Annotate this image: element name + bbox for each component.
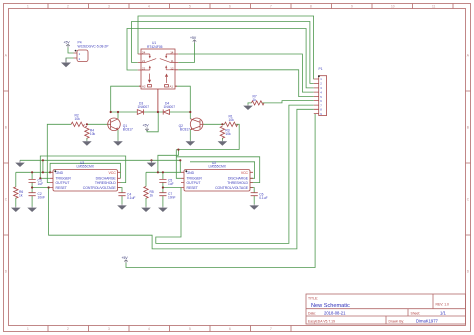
ground Q1 emitter: [117, 140, 119, 143]
relay U1 RT424F05: [138, 49, 178, 112]
svg-text:8: 8: [310, 4, 312, 8]
junction gnd bus U2 drop: [179, 159, 181, 161]
ground Q2 emitter: [189, 140, 191, 143]
coil arrow up (right): [166, 77, 168, 83]
wire relay A1 to diode row: [175, 86, 190, 112]
svg-text:1: 1: [27, 4, 29, 8]
IC U2 LM555CMX: [181, 170, 253, 191]
svg-text:RESET: RESET: [56, 186, 68, 190]
svg-text:B: B: [5, 125, 7, 129]
junction gnd bus U3 drop: [42, 159, 44, 161]
svg-text:10k: 10k: [225, 132, 231, 136]
ground bus mid: [151, 160, 153, 162]
svg-text:0.1uF: 0.1uF: [259, 196, 267, 200]
wire R2 left to U3 output: [47, 124, 71, 182]
wire R6 bottom to gnd: [15, 198, 17, 207]
junction U3 reset row: [48, 186, 50, 188]
wire relay24 to P1 pin1: [138, 16, 314, 79]
+5V at diode row (inverted): [145, 127, 149, 130]
svg-text:11: 11: [432, 4, 436, 8]
svg-text:10nF: 10nF: [168, 195, 176, 199]
svg-text:THRESHOLD: THRESHOLD: [95, 181, 116, 185]
svg-text:2018-08-21: 2018-08-21: [324, 311, 346, 316]
svg-text:1k: 1k: [150, 193, 154, 197]
wire relay21 to P1 pin2: [132, 22, 314, 84]
wire U3 gnd drop: [42, 160, 44, 172]
side pins A2/A1: [139, 85, 177, 87]
coil arrow down (left): [149, 74, 151, 80]
junction net y149.6 jog: [177, 149, 179, 151]
svg-text:4: 4: [148, 327, 150, 331]
svg-text:10k: 10k: [75, 117, 81, 121]
svg-text:RT424F05: RT424F05: [147, 45, 163, 49]
left lower fixed contact from 22: [141, 68, 150, 70]
wire U2 mid row: [146, 171, 181, 173]
junction C3 top: [31, 171, 33, 173]
ground symbols (grey): [11, 58, 259, 212]
resistor R5 1k (vertical): [144, 187, 148, 199]
svg-text:REV: 1.0: REV: 1.0: [436, 303, 450, 307]
left ticks: [4, 91, 9, 235]
wire P4 pin1 to +5V: [68, 48, 74, 54]
wire gnd bus: [20, 159, 180, 161]
wire +5V S4 to P1 pin9: [126, 114, 315, 268]
wire U2 trigger riser: [176, 150, 181, 179]
connector P4 WJ2EDGVC-5.08-2P: [74, 50, 89, 62]
junction U3 disch tie: [49, 171, 51, 173]
svg-text:1N4007: 1N4007: [138, 105, 150, 109]
bottom center coil stub: [157, 89, 159, 112]
wire relay14 to P1 pin4: [178, 54, 314, 92]
junction U3 gnd row: [42, 171, 44, 173]
junction gnd bus mid ground: [150, 159, 152, 161]
wire R4 gnd: [86, 138, 88, 141]
title block: [306, 294, 466, 324]
capacitor C3: [29, 179, 36, 182]
svg-text:+5V: +5V: [190, 36, 197, 40]
svg-text:EasyEDA V5.7.19: EasyEDA V5.7.19: [308, 319, 335, 323]
wire net y149.6 run: [176, 149, 239, 151]
svg-text:+5V: +5V: [64, 40, 71, 44]
svg-text:LM555CMX: LM555CMX: [209, 164, 227, 168]
svg-text:+5V: +5V: [143, 124, 150, 128]
left blade from 21: [141, 59, 156, 63]
wire U2 thres tie: [176, 157, 259, 183]
svg-text:BC817: BC817: [180, 128, 190, 132]
junction R2/R4/Q1 base: [86, 123, 88, 125]
resistor R1 10k (horizontal): [224, 122, 237, 126]
wire diode row: [111, 111, 191, 113]
svg-text:GND: GND: [187, 171, 195, 175]
svg-text:Drawn By:: Drawn By:: [389, 319, 405, 323]
svg-text:1: 1: [27, 327, 29, 331]
wire relay A2 to diode row: [111, 86, 141, 112]
svg-text:GND: GND: [56, 171, 64, 175]
bottom ticks: [48, 326, 291, 332]
wire jog down to U2 row: [158, 150, 179, 173]
svg-text:VCC: VCC: [241, 171, 249, 175]
junction C5/C7 row: [162, 186, 164, 188]
+5V at relay pin11: [193, 40, 197, 43]
junction diode row left: [110, 111, 112, 113]
svg-text:1uF: 1uF: [168, 182, 174, 186]
left contact: pin24 inner lead and fixed contact arrow: [141, 54, 150, 56]
junction R1/R3/Q2 base: [221, 123, 223, 125]
svg-text:14: 14: [170, 50, 174, 54]
wire R1 right to net: [236, 124, 239, 149]
svg-text:6: 6: [229, 4, 231, 8]
svg-text:BC817: BC817: [123, 128, 133, 132]
capacitor C2: [29, 193, 36, 196]
wire +5V S3 to diode row center: [147, 112, 158, 132]
wire U2 gnd drop: [179, 160, 182, 172]
resistor R2 10k (horizontal): [71, 122, 84, 126]
wire U3 reset row: [32, 187, 50, 189]
junction Q1 collector: [117, 111, 119, 113]
svg-text:10k: 10k: [229, 118, 235, 122]
right ticks: [466, 91, 471, 235]
wire Q1 emitter to gnd: [117, 130, 119, 141]
svg-text:CONTROL/VOLTAGE: CONTROL/VOLTAGE: [215, 186, 249, 190]
svg-text:21: 21: [142, 59, 146, 63]
+5V bottom: [124, 260, 128, 263]
svg-text:VCC: VCC: [109, 171, 117, 175]
svg-text:OUTPUT: OUTPUT: [187, 181, 202, 185]
resistor R7 1k (horizontal): [252, 101, 265, 105]
+5V at P4: [66, 44, 70, 47]
ground C6: [253, 204, 255, 205]
svg-text:New Schematic: New Schematic: [311, 303, 350, 309]
resistor R4 10k (vertical): [85, 126, 89, 138]
capacitor C4: [118, 193, 125, 196]
wire U3 gnd row: [16, 171, 50, 173]
svg-text:B: B: [467, 125, 469, 129]
wire U3 trigger row: [40, 177, 50, 179]
svg-text:3: 3: [108, 4, 110, 8]
svg-text:OUTPUT: OUTPUT: [56, 181, 71, 185]
right blade from 11: [160, 59, 175, 63]
junction diode row center +5V: [157, 111, 159, 113]
A2 / A1 terminal boxes: [148, 85, 152, 87]
ground R7: [247, 104, 249, 107]
svg-text:2: 2: [67, 327, 69, 331]
ground R6: [15, 207, 17, 208]
wire Q2 emitter to gnd: [189, 130, 191, 141]
wire Q2 collector riser: [189, 112, 191, 119]
junction U3 trigger tie: [39, 177, 41, 179]
wire relay22 to P1 pin3: [127, 29, 314, 88]
wire R6 top: [15, 172, 17, 187]
connector P1 (9 pin header): [314, 75, 327, 115]
wire C2 stems: [31, 188, 33, 207]
IC U3 LM555CMX: [50, 170, 121, 191]
svg-text:10nF: 10nF: [38, 195, 46, 199]
wire C7 stems: [162, 188, 164, 207]
svg-text:5: 5: [189, 327, 191, 331]
ground R4: [86, 140, 88, 143]
capacitor C6: [251, 193, 258, 196]
svg-text:3: 3: [108, 327, 110, 331]
svg-text:1/1: 1/1: [440, 311, 446, 316]
resistor R3 10k (vertical): [220, 126, 224, 138]
svg-text:2: 2: [67, 4, 69, 8]
svg-text:P1: P1: [319, 67, 323, 71]
wire R7 to P1 pin6: [262, 101, 314, 103]
svg-text:24: 24: [142, 50, 146, 54]
svg-text:1uF: 1uF: [38, 182, 44, 186]
svg-text:TITLE:: TITLE:: [308, 297, 318, 301]
right pin stubs: [175, 54, 178, 70]
svg-text:10: 10: [391, 4, 395, 8]
wire U2 reset row: [163, 187, 181, 189]
svg-text:THRESHOLD: THRESHOLD: [227, 181, 248, 185]
left pin stubs: [138, 54, 141, 70]
junction Q2 collector: [189, 111, 191, 113]
wire U2 disch tie: [190, 162, 255, 179]
ground at P4: [65, 58, 67, 63]
wire R3 gnd: [221, 138, 223, 141]
svg-text:10k: 10k: [90, 132, 96, 136]
svg-text:Sheet:: Sheet:: [411, 312, 421, 316]
wire C5 stems: [162, 172, 164, 187]
svg-text:A1: A1: [170, 84, 174, 88]
wire U2 reset to P1 pin7: [156, 105, 314, 243]
svg-text:1k: 1k: [253, 98, 257, 102]
svg-text:RESET: RESET: [187, 186, 199, 190]
svg-text:1k: 1k: [19, 193, 23, 197]
svg-text:4: 4: [148, 4, 150, 8]
ground R5: [145, 207, 147, 208]
+5V power symbols: [66, 40, 196, 263]
wire Q1 base to R2/R4 junction: [87, 123, 109, 125]
wire relay12 to P1 pin5: [178, 70, 314, 97]
ground R3: [221, 140, 223, 143]
svg-text:LM555CMX: LM555CMX: [77, 164, 95, 168]
right lower fixed contact from 12: [166, 68, 175, 70]
ground bus left: [19, 160, 21, 162]
wire R7 gnd stub: [248, 103, 252, 105]
svg-text:7: 7: [270, 327, 272, 331]
svg-text:7: 7: [270, 4, 272, 8]
capacitor C7: [159, 193, 166, 196]
svg-text:Date:: Date:: [308, 312, 316, 316]
wire Q1 collector riser: [117, 112, 119, 119]
capacitor C5: [159, 179, 166, 182]
wire U3 thres-trig tie: [40, 156, 125, 183]
junction C3/C2 row: [31, 186, 33, 188]
resistor R6 1k (vertical): [14, 187, 18, 198]
wire C6 stems: [250, 188, 254, 205]
svg-text:WJ2EDGVC-5.08-2P: WJ2EDGVC-5.08-2P: [78, 44, 110, 48]
transistor Q1 BC817 (npn, base left): [108, 118, 121, 131]
wire P4 pin2 to ground: [66, 58, 74, 62]
svg-text:+5V: +5V: [122, 256, 129, 260]
svg-text:DimaK1977: DimaK1977: [416, 318, 439, 323]
svg-text:11: 11: [171, 59, 174, 63]
svg-text:CONTROL/VOLTAGE: CONTROL/VOLTAGE: [83, 186, 117, 190]
diode D3 1N4007: [137, 109, 143, 114]
wire C4 stems: [118, 188, 123, 205]
junction jog to U2 row: [157, 171, 159, 173]
svg-text:0.1uF: 0.1uF: [127, 196, 135, 200]
svg-text:5: 5: [189, 4, 191, 8]
junction C5 top: [162, 171, 164, 173]
wire +5V S2 to relay11: [178, 43, 194, 62]
svg-text:6: 6: [229, 327, 231, 331]
right contact: pin14 inner lead: [166, 54, 175, 56]
diode D4 1N4007: [163, 109, 169, 114]
wire Q2 base to R1/R3 junction: [203, 123, 225, 125]
ground C4: [121, 204, 123, 205]
ground C7: [162, 207, 164, 208]
svg-text:12: 12: [170, 66, 174, 70]
transistor Q2 BC817 (npn, base right, mirrored): [190, 118, 203, 131]
svg-text:22: 22: [142, 66, 146, 70]
svg-text:A2: A2: [142, 84, 146, 88]
ground C2: [31, 207, 33, 208]
wire R5: [145, 172, 147, 206]
svg-text:9: 9: [351, 4, 353, 8]
wire C3 stems: [31, 172, 33, 187]
wire U3 disch tie: [50, 163, 120, 178]
svg-text:1N4007: 1N4007: [164, 105, 176, 109]
wire U3 reset chain to P1 pin8: [49, 109, 314, 249]
top ticks: [48, 4, 453, 9]
